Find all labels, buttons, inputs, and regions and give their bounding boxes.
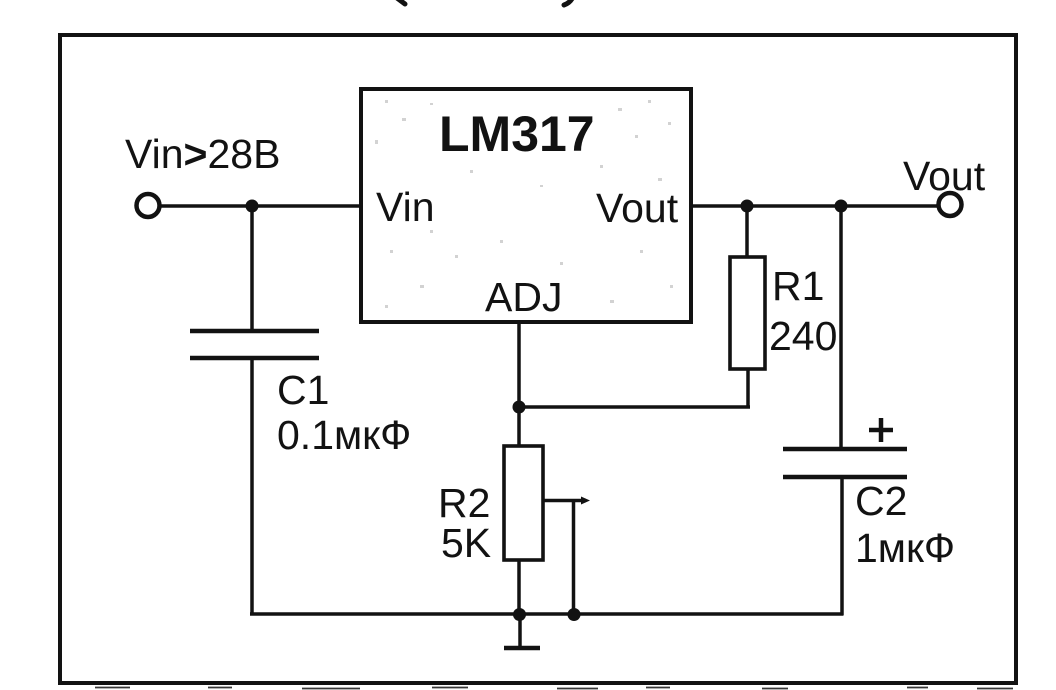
potentiometer R2 body	[504, 446, 543, 560]
junction node input/C1	[246, 200, 259, 213]
wire C2 bottom plate to ground rail	[840, 479, 844, 616]
capacitor C2 bottom plate	[783, 475, 907, 480]
C2 polarity plus sign	[869, 418, 893, 442]
wire C2 node down to C2 top plate	[839, 206, 843, 448]
junction node Vout/C2	[835, 200, 848, 213]
wire R2 bottom to ground rail	[517, 560, 521, 615]
svg-text:5K: 5K	[441, 520, 491, 566]
junction node R2/ground	[513, 608, 526, 621]
svg-text:Vin: Vin	[376, 184, 435, 230]
wire Vout node to R1 top	[745, 206, 749, 258]
svg-text:C1: C1	[277, 367, 329, 413]
junction node Vout/R1	[741, 200, 754, 213]
svg-text:LM317: LM317	[439, 106, 595, 162]
R2 wiper arm horizontal	[543, 499, 586, 503]
input terminal	[137, 194, 160, 217]
ground rail wire	[250, 612, 843, 616]
regulator U1 LM317 body	[361, 89, 691, 322]
svg-text:C2: C2	[855, 478, 907, 524]
junction node wiper/ground rail	[568, 608, 581, 621]
output terminal	[939, 193, 962, 216]
resistor R1 body	[730, 257, 765, 369]
R2 wiper arrow tip	[581, 497, 590, 505]
svg-text:Vin>28B: Vin>28B	[125, 131, 280, 177]
capacitor C1 top plate	[190, 329, 319, 334]
capacitor C2 top plate	[783, 447, 907, 452]
wire C1 bottom to ground rail	[250, 360, 254, 616]
ground symbol stub	[518, 614, 522, 647]
capacitor C1 bottom plate	[190, 356, 319, 361]
junction node ADJ/R1/R2	[513, 401, 526, 414]
svg-text:0.1мкФ: 0.1мкФ	[277, 412, 411, 458]
svg-text:1мкФ: 1мкФ	[855, 525, 955, 571]
wire input to U1 Vin pin	[161, 204, 361, 208]
svg-text:Vout: Vout	[596, 185, 679, 231]
R2 wiper wire down to ground rail	[572, 500, 576, 615]
wire R1 bottom to ADJ node	[519, 405, 750, 409]
wire U1 Vout pin to output terminal	[691, 204, 938, 208]
wire node to C1 top	[250, 206, 254, 330]
cropped caption fragment "("	[397, 0, 405, 4]
cropped caption fragment ")"	[564, 0, 573, 5]
ground symbol bar	[504, 646, 540, 651]
wire U1 ADJ pin down to R2	[517, 322, 521, 447]
wire R1 bottom down	[746, 369, 750, 407]
svg-text:240: 240	[769, 313, 837, 359]
svg-text:R1: R1	[772, 263, 824, 309]
svg-text:ADJ: ADJ	[485, 274, 562, 320]
